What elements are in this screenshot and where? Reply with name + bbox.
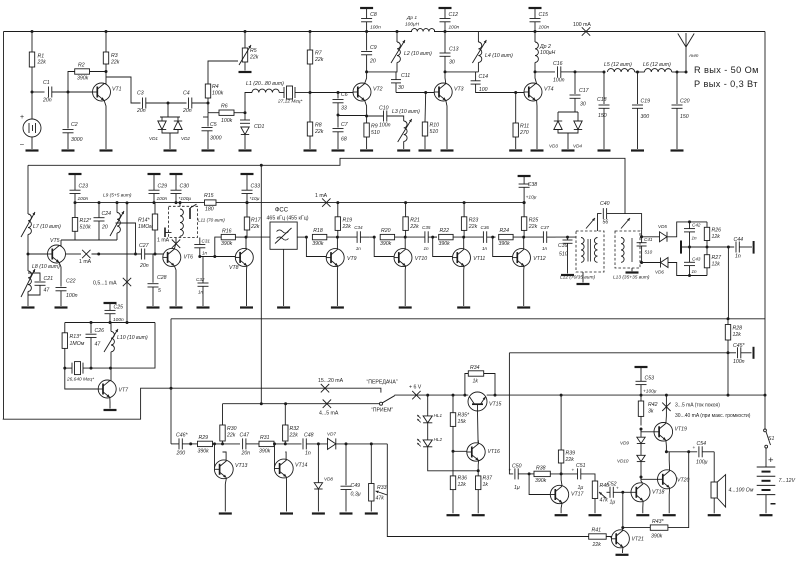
wire C39 top: [567, 237, 569, 240]
wire R25 bottom: [523, 230, 525, 237]
common bar R5: [239, 71, 252, 73]
node output: [687, 450, 690, 453]
wire bus to R19: [337, 203, 339, 217]
wire base VT2: [310, 92, 353, 94]
diode VD3: [549, 121, 562, 149]
node C42 top: [688, 220, 691, 223]
node VT21 collector: [621, 526, 624, 529]
wire line A receiver top: [28, 158, 625, 213]
node VT18 coll: [640, 476, 643, 479]
wire VT21 collector: [622, 528, 624, 530]
wire C11 bottom: [395, 83, 397, 93]
node VT5 base: [27, 253, 30, 256]
svg-text:C19: C19: [641, 99, 651, 105]
node AF out: [727, 246, 730, 249]
ground R36: [447, 514, 460, 516]
capacitor C12 with top bar: [439, 8, 460, 32]
wire C5 stub: [203, 116, 208, 118]
svg-text:150: 150: [680, 114, 689, 120]
svg-text:390k: 390k: [77, 76, 89, 82]
ground C7: [332, 149, 345, 151]
capacitor C36: [481, 225, 490, 251]
R33 wiper arrow: [376, 491, 388, 495]
wire L11 to bus: [179, 203, 181, 207]
svg-text:+: +: [693, 446, 696, 451]
node L13 bottom tap: [640, 261, 643, 264]
capacitor C22: [56, 279, 78, 300]
wire L3 ground: [403, 141, 405, 149]
svg-text:C6: C6: [341, 92, 348, 98]
node R39 top: [560, 394, 563, 397]
node C9/bus: [365, 30, 368, 33]
wire C50 out: [518, 473, 534, 475]
wire VT17 collector up: [561, 474, 562, 486]
transistor VT13: [214, 460, 247, 479]
node R29 in: [189, 442, 192, 445]
resistor R11: [513, 123, 529, 137]
node mic/C1: [31, 91, 34, 94]
transistor VT19: [654, 423, 687, 442]
wire C42 to C43: [689, 232, 691, 262]
node VT19 base: [640, 428, 643, 431]
node VT19 supply: [665, 394, 668, 397]
wire R13 top: [64, 323, 66, 333]
ground VT1: [100, 149, 113, 151]
svg-text:R21: R21: [410, 218, 420, 224]
wire RX feed line: [223, 403, 380, 405]
wire VT14 emitter: [285, 477, 287, 511]
ground C49: [340, 512, 353, 514]
wire bus to R17: [246, 203, 248, 217]
svg-text:1 mA: 1 mA: [79, 259, 92, 265]
svg-text:30: 30: [449, 60, 455, 66]
node R25 bus: [523, 201, 526, 204]
wire to L1: [245, 93, 252, 113]
wire VT6 collector: [174, 238, 176, 249]
wire L1 to crystal: [279, 92, 284, 94]
wire R35 to VT16 base: [453, 426, 467, 451]
svg-text:C28: C28: [157, 275, 167, 281]
center-tap bar: [680, 241, 682, 254]
resistor R2: [75, 63, 90, 82]
wire R16 to base line: [215, 237, 221, 256]
svg-text:CD1: CD1: [254, 124, 264, 130]
wire VT10 base: [374, 237, 394, 256]
ground VT3: [441, 149, 454, 151]
svg-text:C38: C38: [528, 182, 538, 188]
svg-text:100n: 100n: [379, 123, 391, 129]
svg-text:0,5...1 mA: 0,5...1 mA: [93, 281, 117, 287]
resistor R34: [468, 365, 483, 385]
transistor VT5: [48, 238, 66, 263]
svg-text:100k: 100k: [212, 91, 224, 97]
capacitor C17: [570, 88, 590, 108]
svg-text:R30: R30: [227, 426, 237, 432]
svg-text:C35: C35: [422, 225, 431, 230]
node supply line: [126, 321, 129, 324]
varicap CD1: [240, 120, 264, 135]
svg-text:R22: R22: [440, 228, 450, 234]
wire +6V to R39: [560, 395, 562, 450]
svg-text:1k: 1k: [483, 482, 489, 488]
wire to VT12 tap: [493, 236, 496, 238]
node VT10 collector: [404, 236, 407, 239]
node C31 base: [198, 255, 201, 258]
node VT12 base tap: [491, 236, 494, 239]
right border / supply wire: [764, 32, 766, 430]
capacitor C13: [440, 47, 459, 66]
ground R11: [509, 149, 522, 151]
wire R4 to R6 row: [207, 98, 209, 113]
capacitor C14: [471, 74, 489, 93]
wire R14 to base: [154, 230, 156, 254]
inductor L6: [643, 62, 672, 72]
svg-text:HL2: HL2: [434, 437, 443, 442]
wire bus to R23: [463, 203, 465, 217]
ground C20: [671, 149, 684, 151]
svg-text:R16: R16: [222, 228, 232, 234]
svg-text:390k: 390k: [259, 449, 271, 455]
wire crystal to R7 node: [295, 92, 310, 94]
capacitor C29 with top bar: [148, 174, 168, 203]
resistor R1: [29, 52, 46, 67]
wire C20 top: [676, 72, 678, 104]
wire to VT10 tap: [369, 236, 374, 238]
wire to C46: [171, 443, 179, 445]
svg-text:56: 56: [603, 220, 609, 226]
ground FSS: [277, 306, 290, 308]
svg-text:12k: 12k: [712, 262, 721, 268]
wire R24 to collector node: [513, 236, 543, 238]
wire C48 to VD7: [306, 443, 327, 445]
wire R33 top: [370, 444, 372, 484]
svg-text:VT5: VT5: [50, 238, 60, 244]
wire CD1 ground: [244, 135, 246, 150]
wire VD6 to bottom rail: [668, 263, 707, 276]
wire R34 right: [484, 374, 495, 396]
svg-text:180: 180: [205, 207, 214, 213]
wire C6 top: [337, 93, 339, 99]
current cross 1 mA VT6: [172, 240, 180, 248]
wire VT5 emitter tap: [66, 253, 81, 255]
svg-text:22k: 22k: [37, 60, 47, 66]
capacitor C38 with top bar: [518, 176, 538, 203]
wire VT8 emitter: [246, 266, 248, 306]
wire R17 bottom: [246, 230, 248, 237]
capacitor C39: [558, 240, 573, 258]
wire R29 to C47: [213, 443, 241, 445]
node VT3 tank: [444, 70, 447, 73]
diode VD10: [637, 455, 645, 461]
resistor R12: [72, 218, 92, 232]
inductor L2 tuned: [391, 40, 432, 63]
wire top tap to VD5: [640, 236, 660, 238]
wire C42 top lead: [689, 222, 691, 229]
svg-text:C12: C12: [449, 12, 459, 18]
wire VD4 top: [577, 112, 579, 121]
svg-text:22k: 22k: [468, 224, 478, 230]
wire R30 bottom: [222, 441, 224, 444]
node CD1/L1: [244, 111, 247, 114]
wire R31 to C48: [274, 443, 302, 445]
label 4-5 mA: [319, 411, 339, 417]
wire HL2 to emitter: [428, 447, 479, 471]
svg-text:L13 (35+35 вит): L13 (35+35 вит): [613, 275, 650, 281]
svg-text:1 mA: 1 mA: [157, 238, 170, 244]
node C25: [109, 321, 112, 324]
wire R2 to collector: [90, 71, 107, 73]
svg-text:L8 (10 вит): L8 (10 вит): [32, 264, 60, 270]
ground battery: [760, 514, 773, 516]
svg-text:C10: C10: [379, 106, 389, 112]
svg-text:15...20 mA: 15...20 mA: [318, 378, 344, 384]
node L2 bus: [396, 30, 399, 33]
wire C52 to VT21 collector: [613, 492, 623, 527]
svg-text:R32: R32: [290, 426, 300, 432]
svg-text:Р вых - 0,3 Вт: Р вых - 0,3 Вт: [694, 79, 758, 89]
wire +6V to R35: [452, 395, 454, 413]
svg-text:VT4: VT4: [544, 87, 554, 93]
wire to VT4 collector: [535, 72, 537, 84]
wire C1 to VT1 base: [52, 91, 97, 93]
svg-text:1n: 1n: [305, 451, 311, 457]
current cross 4-5 mA: [323, 400, 331, 408]
svg-text:VT18: VT18: [652, 490, 665, 496]
wire C39 ground: [567, 243, 569, 273]
wire to C45: [728, 352, 736, 354]
node C33: [246, 201, 249, 204]
capacitor C2: [63, 122, 83, 143]
svg-text:VT10: VT10: [415, 256, 428, 262]
svg-text:390k: 390k: [198, 449, 210, 455]
shield box L12: [576, 231, 604, 272]
node R28 top: [727, 317, 730, 320]
wire VT7 supply drop: [126, 203, 128, 323]
resistor R40 volume: [592, 481, 609, 504]
capacitor C26: [86, 328, 105, 348]
svg-text:*100μ: *100μ: [179, 196, 192, 202]
svg-text:100n: 100n: [553, 77, 565, 83]
wire R19 bottom: [337, 230, 339, 237]
svg-text:▬: ▬: [771, 501, 776, 507]
svg-text:100n: 100n: [66, 293, 78, 299]
wire R7 R8 chain: [309, 64, 311, 122]
wire TX feed to switch: [171, 388, 381, 392]
label PRIEM: [371, 407, 393, 413]
wire bus to C24: [98, 203, 100, 218]
wire to C4: [168, 102, 187, 104]
wire C4 to R4: [192, 102, 208, 104]
wire R6 to C5: [207, 113, 209, 127]
svg-text:R25: R25: [529, 218, 539, 224]
capacitor C53 with top bar: [635, 367, 657, 395]
svg-text:C4: C4: [183, 91, 190, 97]
wire L13 ground lead: [631, 268, 633, 271]
transistor VT1: [93, 83, 122, 101]
lower bus wire: [171, 318, 765, 320]
transistor VT7: [98, 380, 129, 398]
wire R11 ground: [515, 137, 517, 149]
svg-text:“ПРИЕМ”: “ПРИЕМ”: [371, 407, 393, 413]
node C20: [676, 71, 679, 74]
svg-text:VT7: VT7: [119, 388, 130, 394]
wire bus to C13: [444, 32, 446, 54]
node limiter: [167, 102, 170, 105]
wire HL1 top: [427, 395, 429, 416]
svg-text:VT19: VT19: [675, 427, 688, 433]
wire R39 bottom: [560, 463, 562, 474]
wire RX line to R30: [222, 404, 224, 425]
wire R28 bottom: [727, 340, 729, 353]
wire VT5 emitter: [59, 262, 61, 286]
node VT10 base tap: [373, 236, 376, 239]
transistor VT6: [163, 248, 193, 266]
capacitor C30 with top bar: [170, 174, 192, 203]
transistor VT4: [524, 83, 554, 101]
node R34 left: [463, 394, 466, 397]
resistor R6: [219, 104, 234, 125]
svg-text:R43*: R43*: [652, 519, 665, 525]
ground L12: [577, 283, 590, 285]
svg-text:30: 30: [580, 102, 586, 108]
wire R1 to mic: [31, 67, 33, 119]
svg-text:390k: 390k: [439, 241, 451, 247]
capacitor C41: [637, 237, 653, 255]
svg-text:VT16: VT16: [488, 449, 501, 455]
wire collector to C3: [106, 77, 141, 103]
transistor VT8: [229, 248, 253, 270]
node C13/bus: [444, 30, 447, 33]
svg-text:22k: 22k: [528, 224, 538, 230]
wire VT16 collector: [477, 440, 479, 444]
svg-text:–: –: [20, 141, 24, 148]
wire R34 left: [465, 374, 468, 396]
wire R41 to VT21: [606, 537, 611, 539]
node R10 tap: [424, 91, 427, 94]
svg-text:VT9: VT9: [347, 256, 357, 262]
node R34 right: [494, 394, 497, 397]
wire R21 bottom: [405, 230, 407, 237]
trimmer arrow L12: [586, 218, 595, 229]
wire L10 top: [110, 323, 112, 332]
svg-text:C21: C21: [44, 276, 54, 282]
svg-text:390k: 390k: [651, 534, 663, 540]
svg-text:C50: C50: [512, 464, 522, 470]
wire FSS out: [297, 236, 306, 238]
diode VD8: [314, 483, 322, 489]
svg-text:C45*: C45*: [733, 343, 746, 349]
resistor R9: [364, 123, 380, 137]
svg-text:C40: C40: [600, 201, 610, 207]
svg-text:C46*: C46*: [176, 433, 189, 439]
wire +6V to R42: [640, 395, 642, 401]
resistor R38: [534, 466, 550, 484]
svg-text:R42: R42: [648, 402, 658, 408]
svg-text:510: 510: [645, 250, 653, 255]
node C26: [90, 321, 93, 324]
resistor R17: [244, 217, 261, 230]
wire C44 out: [739, 246, 752, 248]
wire L6 to antenna: [672, 71, 686, 73]
svg-text:VT21: VT21: [632, 536, 645, 542]
wire C6 C7: [337, 103, 339, 128]
svg-text:1МОм: 1МОм: [138, 224, 153, 230]
svg-text:22k: 22k: [409, 224, 419, 230]
svg-text:VD6: VD6: [655, 270, 664, 275]
wire C36 out: [487, 236, 496, 238]
wire R38 out: [550, 473, 577, 475]
inductor L1: [246, 81, 284, 93]
svg-text:R вых - 50 Ом: R вых - 50 Ом: [694, 65, 759, 75]
wire VT12 base: [493, 237, 513, 256]
wire C34 out: [360, 236, 369, 238]
wire to R43: [623, 527, 651, 529]
wire C17 to filter: [575, 71, 604, 73]
svg-text:1μ: 1μ: [514, 485, 520, 491]
ground VD1 VD2: [164, 149, 177, 151]
wire C5 ground: [207, 131, 209, 149]
node C26 bottom: [90, 367, 93, 370]
choke Dr1 in bus: [405, 15, 435, 33]
node L13 top tap: [640, 235, 643, 238]
node R21 bus: [404, 201, 407, 204]
svg-text:C16: C16: [553, 61, 563, 67]
current cross 0,5-1 mA: [123, 278, 131, 286]
wire VT10 collector drop: [404, 237, 406, 249]
capacitor C43: [684, 257, 701, 275]
wire VD9 VD10: [640, 444, 642, 456]
node VT17 base: [528, 472, 531, 475]
node R32 feed: [284, 402, 287, 405]
svg-text:VD4: VD4: [573, 144, 582, 149]
wire VT12 emitter: [523, 266, 525, 306]
svg-text:C23: C23: [79, 184, 89, 190]
wire bus to L2: [396, 32, 398, 43]
ground VT18: [636, 514, 649, 516]
svg-text:1k: 1k: [473, 379, 479, 385]
resistor R42: [638, 401, 657, 416]
svg-text:VD9: VD9: [620, 441, 629, 446]
wire C41 top: [641, 237, 643, 243]
svg-text:100μН: 100μН: [540, 50, 555, 56]
wire VT6 emitter: [174, 266, 176, 306]
ground VT20: [663, 514, 676, 516]
inductor L9 coil: [110, 211, 124, 236]
wire R20 to collector node: [395, 236, 425, 238]
wire R10 ground: [424, 136, 426, 149]
current cross 1 mA VT5: [82, 250, 90, 258]
node R19 bus: [336, 201, 339, 204]
svg-text:C14: C14: [479, 74, 489, 80]
ground VT4: [531, 149, 544, 151]
svg-text:R10: R10: [430, 123, 440, 129]
wire diode top bracket: [160, 116, 180, 118]
svg-text:20n: 20n: [136, 108, 146, 114]
R40 wiper arrow: [599, 492, 607, 499]
capacitor C1: [42, 80, 52, 104]
svg-text:12k: 12k: [733, 332, 742, 338]
ground VT7: [104, 409, 117, 411]
ground C22: [55, 306, 68, 308]
wire C32 ground: [202, 286, 204, 306]
svg-text:12k: 12k: [458, 482, 467, 488]
svg-text:22k: 22k: [314, 57, 324, 63]
svg-text:C15: C15: [539, 12, 549, 18]
svg-text:100n: 100n: [78, 196, 89, 202]
wire HL1 HL2: [427, 423, 429, 440]
svg-text:C8: C8: [370, 12, 377, 18]
capacitor C27: [139, 243, 150, 269]
